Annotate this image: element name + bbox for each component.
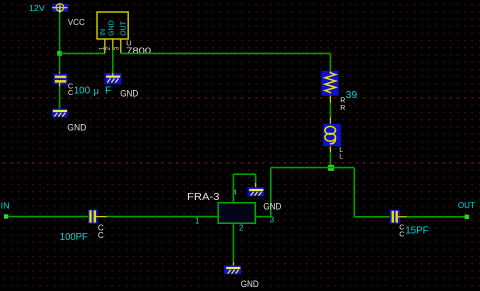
svg-text:GND: GND [120,89,138,99]
IN port [4,214,8,218]
wire to C2 [354,216,389,218]
ground G1 under regulator [105,73,122,84]
wire junction to regulator pin1 [60,52,105,54]
wire down to C2 [353,168,355,217]
svg-text:OUT: OUT [458,201,475,210]
svg-text:GND: GND [263,201,281,211]
ground G3 below FRA-3 [224,265,241,274]
svg-text:1: 1 [195,216,199,225]
wire pin2 down [232,223,234,262]
wire resistor to inductor [329,96,331,103]
svg-text:100: 100 [74,85,91,97]
svg-text:R: R [340,97,345,104]
wire junction left [271,167,331,169]
wire pin4 up [232,174,234,203]
wire regulator pin3 to resistor [121,52,331,54]
svg-text:IN: IN [100,29,107,36]
svg-text:2: 2 [105,46,112,50]
regulator U 7800 [97,12,128,53]
wire C3 to FRA pin1 [107,216,218,218]
svg-text:39: 39 [346,90,358,101]
wire vcc down [59,13,61,54]
svg-text:GND: GND [67,123,86,133]
svg-text:C: C [399,229,404,238]
svg-text:GND: GND [241,279,259,289]
svg-text:F: F [105,85,111,96]
wire C2 to OUT [407,216,465,218]
wire top to resistor [329,53,331,72]
svg-text:L: L [339,154,343,161]
capacitor C3 100PF [88,209,107,224]
capacitor C1 100uF [54,74,68,85]
junction [57,51,62,56]
wire IN to C3 [8,216,88,218]
wire pin3 to riser [255,216,270,218]
svg-text:3: 3 [113,46,120,50]
capacitor C2 15PF [390,210,407,224]
ground G4 at FRA-3 pin4 [247,187,264,196]
svg-text:FRA-3: FRA-3 [187,192,220,203]
svg-text:GND: GND [109,20,116,36]
wire regulator pin2 down [112,50,114,74]
OUT port [465,215,470,219]
wire C1 to ground [59,83,61,87]
svg-text:12V: 12V [29,4,46,13]
svg-text:μ: μ [94,86,99,97]
wire down to FRA pin3 [270,168,272,217]
wire inductor to junction [329,146,331,152]
ground G2 under C1 [52,109,68,118]
svg-text:2: 2 [239,224,243,233]
wire junction down to C1 [59,56,61,73]
power port VCC symbol [52,4,68,14]
svg-text:R: R [340,105,345,112]
wire pin4 jog right [233,173,255,175]
svg-text:OUT: OUT [121,20,128,36]
wire jog down to ground [255,174,257,183]
svg-text:100PF: 100PF [60,232,88,243]
inductor L [323,124,341,147]
resistor R 39 [321,71,338,96]
svg-text:15PF: 15PF [405,226,429,237]
FRA-3 body [218,203,255,224]
svg-text:IN: IN [1,201,10,210]
svg-text:C: C [98,231,104,240]
junction 2 [328,165,334,171]
wire junction right [331,167,355,169]
svg-text:VCC: VCC [68,17,85,27]
